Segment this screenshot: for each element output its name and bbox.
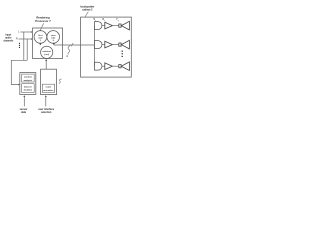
ellipsis more channels [19, 43, 20, 44]
output wire to cabinet [54, 44, 95, 46]
renderer circle 2 [47, 31, 60, 44]
leader label 8 [59, 79, 62, 84]
content analysis cell [22, 74, 35, 82]
ellipsis speakers [122, 51, 123, 52]
svg-text:Processor 7: Processor 7 [35, 19, 51, 23]
row3 wire2 [112, 65, 118, 67]
wire L input [20, 31, 31, 33]
row1 wire [102, 25, 105, 27]
svg-text:cabinet 2: cabinet 2 [82, 8, 93, 11]
row1 DAC [94, 22, 102, 30]
svg-text:input: input [5, 34, 11, 37]
row1 wire2 [112, 25, 118, 27]
arrow sensor data [23, 97, 25, 107]
label Rendering Processor 7 [35, 16, 51, 23]
row2 wire2 [112, 44, 118, 46]
row1 labels 5 6 7 [93, 17, 118, 21]
row1 speaker [119, 24, 121, 27]
leader for processor label [40, 23, 44, 31]
row2 speaker [119, 43, 121, 46]
arrow user interface selection [45, 97, 47, 107]
leader cabinet label [85, 12, 88, 17]
mixer circle 3 [41, 46, 53, 58]
label sensor data [20, 108, 28, 114]
wireless link slash [71, 43, 73, 46]
rendering processor box [33, 28, 63, 59]
wire around to content box [11, 60, 27, 84]
arrow content to renderer [45, 60, 47, 69]
arrow circle2 down [53, 43, 55, 44]
row2 wire [102, 44, 105, 46]
row3 DAC [94, 62, 102, 70]
svg-text:location: location [24, 89, 33, 92]
svg-text:selection: selection [41, 111, 52, 114]
label user interface selection [38, 108, 54, 114]
row3 speaker [119, 65, 121, 68]
svg-text:listener: listener [24, 85, 32, 88]
svg-text:room: room [46, 87, 52, 89]
analysis box (left) [20, 73, 36, 95]
svg-text:audio: audio [5, 38, 12, 40]
row3 wire [102, 65, 105, 67]
renderer circle 1 [34, 31, 47, 44]
tap wire from R [26, 39, 28, 60]
row2 DAC [94, 41, 102, 49]
wireless link squiggle [68, 45, 71, 55]
svg-text:(rev): (rev) [44, 54, 49, 56]
wire R input [19, 38, 32, 40]
svg-text:ambient: ambient [43, 50, 52, 53]
row2 amp [105, 41, 113, 48]
label loudspeaker cabinet 2 [80, 5, 94, 11]
svg-text:channels: channels [3, 40, 14, 42]
listener location cell [22, 84, 35, 93]
acoustics box (right) [41, 69, 57, 94]
distribution bus [93, 26, 95, 67]
input audio channels text [3, 34, 14, 43]
svg-text:content: content [24, 76, 32, 79]
svg-text:analysis: analysis [24, 80, 33, 82]
row1 amp [105, 22, 113, 29]
svg-text:R: R [16, 37, 18, 41]
row3 amp [105, 63, 113, 70]
svg-text:data: data [21, 111, 27, 114]
tap wire from L [23, 32, 25, 60]
svg-text:acoustics: acoustics [43, 89, 54, 92]
loudspeaker cabinet box [81, 17, 132, 77]
room acoustics cell [42, 84, 54, 92]
arrow circle1 down [39, 43, 41, 44]
